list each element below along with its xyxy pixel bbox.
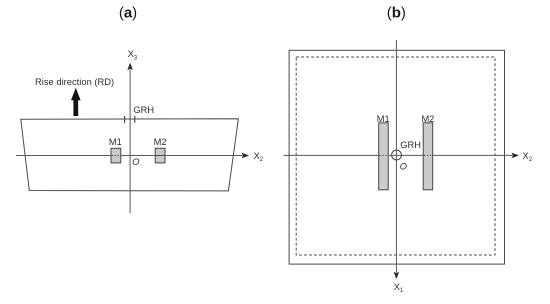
trapezoid specimen outline — [21, 119, 239, 191]
dotted axis segment through M1 (panel a) — [112, 155, 120, 157]
magnet M2 rectangle (panel b) — [423, 123, 433, 190]
svg-text:O: O — [400, 162, 407, 172]
svg-text:M2: M2 — [154, 137, 167, 147]
svg-text:O: O — [132, 157, 139, 167]
svg-text:(b): (b) — [387, 5, 406, 22]
svg-text:M1: M1 — [109, 137, 122, 147]
dotted axis segment through M2 (panel b) — [424, 154, 432, 156]
dotted axis segment through M1 (panel b) — [380, 154, 388, 156]
svg-text:GRH: GRH — [133, 105, 154, 115]
axis X3 (vertical, panel a) — [127, 63, 133, 214]
svg-text:GRH: GRH — [400, 140, 421, 150]
magnet M1 rectangle (panel a) — [111, 148, 121, 163]
axis X2 (horizontal, panel b) — [284, 153, 520, 159]
dashed inner square (panel b) — [296, 57, 495, 255]
GRH tick right (panel a) — [134, 116, 136, 123]
GRH tick left (panel a) — [124, 116, 126, 123]
magnet M2 rectangle (panel a) — [155, 148, 165, 163]
solid axis segment through M2 (panel a) — [155, 155, 165, 157]
magnet M1 rectangle (panel b) — [379, 123, 389, 190]
rise direction thick arrow — [71, 88, 81, 116]
svg-text:Rise direction (RD): Rise direction (RD) — [35, 76, 114, 87]
svg-text:M1: M1 — [377, 114, 390, 124]
svg-text:M2: M2 — [421, 114, 434, 124]
axis X1 (vertical, panel b, arrow down) — [394, 40, 400, 279]
GRH circle symbol at origin (panel b) — [392, 150, 402, 160]
axis X2 (horizontal, panel a) — [16, 153, 249, 159]
outer square specimen outline (panel b) — [289, 50, 504, 264]
svg-text:(a): (a) — [119, 5, 137, 22]
